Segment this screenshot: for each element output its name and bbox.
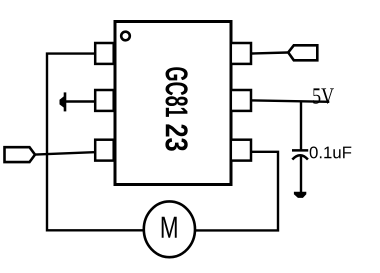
wire pin R1 to right tag (252, 53, 288, 54)
wire net pin L1 to motor left (47, 54, 144, 231)
wire capacitor to ground arrow (300, 155, 302, 192)
wire left tag to pin L3 (35, 152, 94, 154)
arrow terminal on pin L2 (60, 92, 67, 111)
IC label GC8123 part 2 (165, 124, 187, 150)
ground arrow (down) (294, 192, 306, 198)
capacitor C1 curved plate (292, 155, 308, 159)
pin L3 (95, 140, 114, 161)
label 0.1uF (310, 147, 352, 159)
pin R3 (231, 140, 251, 161)
pin L2 (95, 90, 114, 111)
motor M circle (144, 201, 195, 257)
IC U1 body (115, 22, 231, 185)
label 5V (313, 88, 334, 103)
pin R1 (231, 43, 251, 64)
wire pin L2 to arrow (66, 100, 94, 102)
wire 5V rail down to capacitor (300, 101, 302, 150)
wire pin R2 to 5V (252, 100, 329, 101)
motor letter M (162, 217, 177, 238)
left connector tag (5, 147, 36, 162)
pin R2 (231, 90, 251, 111)
pin L1 (95, 43, 114, 64)
right connector tag (288, 45, 317, 60)
pin 1 indicator dot (121, 32, 130, 41)
wire pin R3 to motor right (195, 152, 278, 231)
capacitor C1 top plate (292, 149, 308, 152)
IC label GC8123 part 1 (166, 67, 188, 117)
